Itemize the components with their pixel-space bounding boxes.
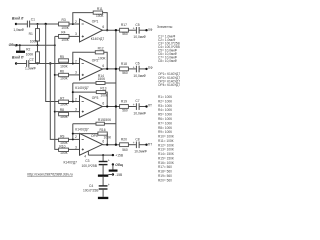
resistor R3	[59, 18, 70, 30]
wire C7 to output terminal	[139, 106, 146, 108]
wire R17 to C5	[128, 29, 136, 31]
node dot common to rail C	[54, 44, 56, 46]
svg-text:2: 2	[75, 59, 77, 63]
node dot rail A top	[45, 23, 47, 25]
svg-text:R11= 100К: R11= 100К	[158, 139, 174, 143]
svg-text:10,0мкФ: 10,0мкФ	[133, 35, 146, 39]
resistor R20	[120, 138, 129, 152]
wire R3 to pin2	[69, 23, 80, 25]
node dot rail C R8	[54, 111, 56, 113]
terminal Общ	[9, 43, 18, 47]
wire R18 to C6	[128, 68, 136, 70]
svg-text:3: 3	[75, 71, 77, 75]
svg-text:100К: 100К	[61, 26, 69, 30]
svg-text:C1: C1	[31, 18, 35, 22]
svg-text:3: 3	[75, 108, 77, 112]
wire R9 to pin2	[69, 138, 80, 140]
svg-text:100К: 100К	[26, 53, 34, 57]
capacitor C8	[133, 137, 148, 153]
svg-text:150К: 150К	[104, 118, 112, 122]
svg-text:6: 6	[102, 25, 104, 29]
svg-text:6: 6	[102, 101, 104, 105]
svg-text:+15В: +15В	[115, 154, 124, 158]
svg-text:R20= 560: R20= 560	[158, 178, 172, 182]
svg-text:R6= 100К: R6= 100К	[158, 117, 172, 121]
svg-text:C3: C3	[85, 159, 89, 163]
capacitor C4	[83, 177, 110, 197]
output terminal ЛТ	[145, 104, 152, 108]
svg-text:R19: R19	[121, 100, 127, 104]
ground bar C3	[98, 175, 108, 177]
svg-text:R7= 100К: R7= 100К	[158, 121, 172, 125]
svg-text:К140УД7: К140УД7	[64, 160, 78, 164]
wire R7 to pin2	[69, 101, 80, 103]
svg-text:R3: R3	[62, 18, 66, 22]
resistor R10	[59, 145, 69, 155]
resistor R6	[55, 69, 69, 80]
resistor R18	[120, 62, 129, 75]
node output row3	[115, 105, 117, 107]
pin 4 stub OP4	[84, 151, 88, 159]
svg-text:100,0*25В: 100,0*25В	[82, 164, 98, 168]
svg-text:3: 3	[75, 32, 77, 36]
node pin2 row4 feedback junction	[72, 138, 74, 140]
svg-text:100К: 100К	[60, 151, 68, 155]
svg-text:R17: R17	[121, 23, 127, 27]
svg-text:К140УД7: К140УД7	[75, 128, 89, 132]
svg-text:ПТ: ПТ	[148, 142, 152, 146]
svg-text:OP4: OP4	[91, 134, 98, 138]
svg-text:R12= 100К: R12= 100К	[158, 143, 174, 147]
resistor R7	[59, 97, 69, 107]
resistor R1	[29, 24, 40, 45]
feedback node row1	[106, 29, 108, 31]
feedback resistor R11	[73, 7, 107, 30]
svg-text:100К: 100К	[61, 38, 69, 42]
svg-text:R18: R18	[121, 62, 127, 66]
svg-text:100К: 100К	[60, 115, 68, 119]
capacitor C7	[133, 99, 147, 115]
terminal -15В	[108, 173, 123, 177]
capacitor C1	[13, 18, 35, 33]
terminal +15В	[112, 154, 124, 158]
svg-text:C6: C6	[135, 62, 139, 66]
svg-text:R2= 100К: R2= 100К	[158, 100, 172, 104]
svg-text:OP1: OP1	[92, 19, 99, 23]
svg-text:3: 3	[75, 145, 77, 149]
svg-text:OP3: OP3	[92, 96, 99, 100]
feedback resistor R12	[73, 47, 107, 69]
svg-text:R10: R10	[59, 145, 65, 149]
svg-text:100К: 100К	[60, 64, 68, 68]
svg-text:R15= 150К: R15= 150К	[158, 156, 174, 160]
svg-text:2: 2	[75, 97, 77, 101]
svg-text:R16: R16	[100, 128, 106, 132]
svg-text:R1= 100К: R1= 100К	[158, 95, 172, 99]
svg-text:+: +	[133, 103, 135, 107]
wire C8 to output terminal	[139, 144, 146, 146]
resistor R9	[59, 135, 69, 145]
svg-text:R10= 100К: R10= 100К	[158, 135, 174, 139]
svg-text:R12: R12	[98, 47, 104, 51]
node pin2 row3 feedback junction	[72, 101, 74, 103]
capacitor C3	[82, 155, 110, 174]
node dot common R1R2	[37, 44, 39, 46]
node C3 top	[102, 154, 104, 156]
wire +15V rail	[88, 154, 113, 156]
wire output row4	[103, 144, 122, 146]
svg-text:R4: R4	[61, 31, 65, 35]
svg-text:ЛФ: ЛФ	[148, 28, 153, 32]
svg-text:6: 6	[102, 64, 104, 68]
svg-text:R4= 100К: R4= 100К	[158, 108, 172, 112]
op-amp OP1	[75, 19, 104, 42]
rail B П signal	[50, 64, 58, 140]
svg-text:+: +	[108, 183, 110, 187]
svg-text:560: 560	[122, 109, 128, 113]
op-amp OP3	[75, 96, 104, 132]
svg-text:ЛТ: ЛТ	[148, 104, 152, 108]
wire R8 to pin3	[55, 111, 80, 113]
wire R5 to pin2	[29, 63, 80, 65]
svg-text:100К: 100К	[30, 39, 38, 43]
resistor R5	[59, 55, 69, 68]
output terminal ПФ	[145, 66, 153, 70]
node output row4	[115, 144, 117, 146]
svg-text:ПФ: ПФ	[148, 66, 153, 70]
svg-text:10,0мкФ: 10,0мкФ	[134, 149, 147, 153]
svg-text:100К: 100К	[60, 76, 68, 80]
wire R20 to C8	[128, 144, 136, 146]
input terminal Вход Л	[12, 16, 24, 25]
wire output row3	[103, 106, 122, 108]
svg-text:OP4= К140УД7: OP4= К140УД7	[158, 83, 180, 87]
svg-text:R19= 560: R19= 560	[158, 174, 172, 178]
svg-text:+: +	[108, 159, 110, 163]
svg-text:10,0мкФ: 10,0мкФ	[133, 74, 146, 78]
svg-text:C7: C7	[135, 99, 139, 103]
wire П input to C2	[16, 63, 26, 65]
op-amp OP4	[64, 133, 105, 164]
ground bar input	[16, 44, 25, 53]
output terminal ПТ	[145, 142, 152, 146]
svg-text:Элементы:: Элементы:	[157, 25, 173, 29]
wire C6 to output terminal	[139, 68, 146, 70]
node dot R2 bottom	[37, 63, 39, 65]
svg-text:R9: R9	[60, 135, 64, 139]
svg-text:R11: R11	[97, 7, 103, 11]
svg-text:1,0мкФ: 1,0мкФ	[13, 28, 24, 32]
feedback resistor R13	[72, 83, 108, 107]
svg-text:Общ: Общ	[9, 43, 17, 47]
node dot rail B top	[49, 62, 51, 64]
wire node A (Л)	[30, 23, 59, 25]
svg-text:150К: 150К	[98, 77, 106, 81]
capacitor C5	[133, 23, 147, 39]
resistor R8	[59, 108, 69, 119]
node dot rail C R6	[54, 74, 56, 76]
feedback resistor R14	[73, 74, 116, 85]
svg-text:-15В: -15В	[115, 173, 123, 177]
wire common rail	[17, 44, 55, 46]
resistor R19	[120, 100, 129, 113]
svg-text:R20: R20	[121, 138, 127, 142]
svg-text:100К: 100К	[98, 56, 106, 60]
rail A Л signal	[46, 24, 59, 102]
svg-text:100,0*25В: 100,0*25В	[83, 188, 99, 192]
svg-text:10,0мкФ: 10,0мкФ	[133, 112, 146, 116]
svg-text:C4: C4	[89, 184, 93, 188]
node dot R1 top	[37, 23, 39, 25]
svg-text:R17= 560: R17= 560	[158, 165, 172, 169]
svg-text:560: 560	[122, 71, 128, 75]
op-amp OP2	[75, 58, 104, 90]
svg-text:100К: 100К	[96, 14, 104, 18]
svg-text:R13: R13	[100, 87, 106, 91]
node pin2 row1 feedback junction	[72, 23, 74, 25]
svg-text:C8: C8	[135, 137, 139, 141]
svg-text:R7: R7	[60, 97, 64, 101]
svg-text:Общ: Общ	[115, 163, 123, 167]
wire C5 to output terminal	[139, 29, 146, 31]
svg-text:1,0мкФ: 1,0мкФ	[25, 67, 36, 71]
node output row1	[115, 29, 117, 31]
resistor R4	[55, 31, 69, 43]
feedback resistor R16	[72, 124, 111, 145]
svg-text:R16= 100К: R16= 100К	[158, 161, 174, 165]
feedback resistor R15	[73, 118, 116, 125]
svg-text:R5= 100К: R5= 100К	[158, 113, 172, 117]
svg-text:R6: R6	[60, 69, 64, 73]
output terminal ЛФ	[145, 28, 153, 32]
ground bar Общ	[109, 170, 118, 172]
svg-text:R5: R5	[60, 55, 64, 59]
resistor R17	[120, 23, 129, 36]
svg-text:100К: 100К	[60, 103, 68, 107]
node output row2	[115, 68, 117, 70]
svg-text:R2: R2	[26, 47, 30, 51]
svg-text:C8= 10,0мкФ: C8= 10,0мкФ	[158, 59, 178, 63]
wire output row1	[103, 29, 122, 31]
input terminal Вход П	[12, 56, 24, 65]
node pin2 row2 feedback junction	[72, 63, 74, 65]
svg-text:+: +	[133, 141, 135, 145]
ground bar C4	[98, 197, 108, 199]
svg-text:Вход Л: Вход Л	[12, 16, 24, 20]
svg-text:http://cxem298762988.3dn.ru: http://cxem298762988.3dn.ru	[27, 172, 73, 176]
resistor R2	[26, 45, 40, 63]
terminal Общ power	[112, 163, 123, 170]
svg-text:+: +	[133, 65, 135, 69]
svg-text:Вход П: Вход П	[12, 56, 24, 60]
svg-text:C5: C5	[135, 23, 139, 27]
svg-text:560: 560	[122, 148, 128, 152]
svg-text:R1: R1	[29, 32, 33, 36]
svg-text:C2: C2	[29, 58, 33, 62]
wire R4 to pin3	[69, 35, 80, 37]
svg-text:2: 2	[75, 20, 77, 24]
wire R19 to C7	[128, 106, 136, 108]
capacitor C2	[25, 58, 36, 71]
svg-text:560: 560	[122, 32, 128, 36]
svg-text:R14= 150К: R14= 150К	[158, 152, 174, 156]
rail C common	[55, 36, 59, 149]
wire R6 to pin3	[69, 74, 80, 76]
wire R10 to pin3	[69, 148, 80, 150]
svg-text:К140УД7: К140УД7	[91, 37, 105, 41]
svg-text:2: 2	[75, 135, 77, 139]
svg-text:4: 4	[84, 154, 86, 158]
svg-text:6: 6	[102, 140, 104, 144]
svg-text:+: +	[133, 27, 135, 31]
wire output row2	[103, 68, 122, 70]
capacitor C6	[133, 62, 147, 78]
wire Л input to C1	[16, 23, 27, 25]
svg-text:R9= 100К: R9= 100К	[158, 130, 172, 134]
summing rail vertical	[115, 30, 117, 145]
svg-text:К140УД7: К140УД7	[75, 86, 89, 90]
